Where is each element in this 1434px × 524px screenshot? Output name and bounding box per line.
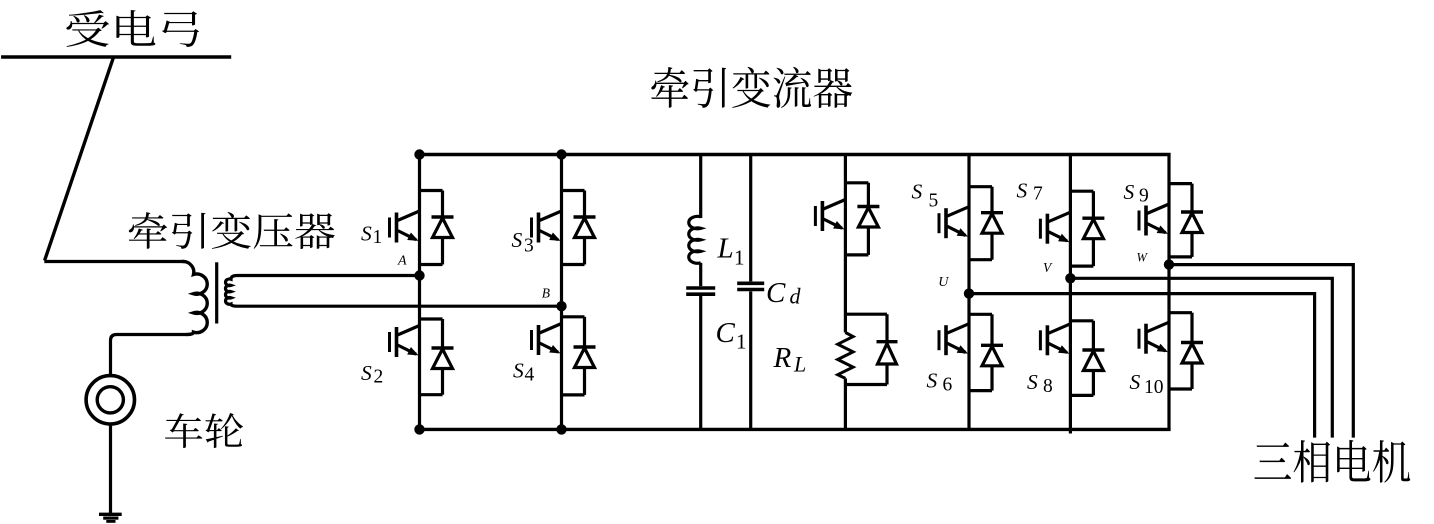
svg-text:3: 3: [524, 236, 534, 257]
wire inverter leg V rail: [1069, 155, 1072, 434]
svg-text:B: B: [542, 286, 550, 301]
antiparallel diode of S10: [1181, 313, 1203, 389]
wire collector stub S5: [969, 185, 992, 188]
svg-text:4: 4: [525, 365, 535, 386]
svg-text:R: R: [773, 342, 792, 374]
wire pantograph to transformer primary: [44, 260, 184, 263]
label 三相电机 (three-phase motor): [1254, 440, 1410, 483]
pantograph arm: [45, 58, 114, 261]
IGBT module S3: [532, 191, 596, 265]
junction dot node B: [556, 301, 566, 311]
IGBT module S7: [1040, 191, 1104, 266]
transformer core: [215, 262, 218, 323]
IGBT module S8: [1040, 321, 1104, 396]
wire Cd branch upper: [749, 155, 752, 282]
wire Cd branch lower: [749, 291, 752, 429]
svg-text:5: 5: [929, 191, 939, 212]
antiparallel diode of S7: [1082, 191, 1104, 266]
svg-text:2: 2: [374, 367, 384, 388]
wire secondary bottom to node B: [237, 305, 562, 308]
wire emitter stub S2: [420, 393, 443, 396]
wire collector stub S1: [420, 189, 443, 192]
svg-text:1: 1: [373, 227, 383, 248]
antiparallel diode of S5: [981, 187, 1003, 260]
antiparallel diode of S1: [432, 191, 454, 265]
IGBT transistor S3: [532, 211, 562, 243]
svg-text:1: 1: [736, 330, 747, 354]
wire rectifier leg 1 rail: [418, 155, 421, 430]
wire phase V output: [1070, 278, 1332, 437]
antiparallel diode of S8: [1082, 321, 1104, 396]
antiparallel diode of S4: [574, 317, 596, 395]
wire collector stub S7: [1070, 190, 1093, 193]
junction dot node W: [1164, 259, 1174, 269]
wheel (outer rim): [86, 376, 134, 424]
svg-text:S: S: [1130, 370, 1141, 394]
junction dot node U: [964, 288, 974, 298]
IGBT module S1: [390, 191, 454, 265]
svg-text:W: W: [1137, 251, 1149, 265]
svg-text:S: S: [1124, 180, 1135, 204]
DC bus positive (top rail): [420, 153, 1171, 156]
wire chopper leg lower: [844, 378, 847, 429]
wire emitter stub S7: [1070, 265, 1093, 268]
label 牵引变流器 (traction converter) title: [651, 67, 852, 108]
junction dot node V: [1065, 273, 1075, 283]
wire phase U output: [969, 294, 1315, 438]
svg-text:A: A: [397, 253, 407, 268]
svg-text:7: 7: [1033, 184, 1043, 205]
antiparallel diode of chopper: [857, 183, 879, 255]
wire inverter leg U rail: [967, 155, 970, 430]
wire emitter stub chopper IGBT: [845, 253, 868, 256]
wire RL top stub: [845, 313, 887, 316]
svg-text:C: C: [766, 277, 786, 309]
svg-text:C: C: [716, 317, 736, 349]
wire collector stub S3: [562, 189, 585, 192]
wire emitter stub S6: [969, 389, 992, 392]
wire collector stub chopper IGBT: [845, 181, 868, 184]
svg-text:S: S: [927, 368, 938, 392]
svg-text:S: S: [1017, 178, 1028, 202]
svg-text:S: S: [512, 228, 523, 252]
ground symbol: [99, 513, 122, 516]
wire emitter stub S5: [969, 258, 992, 261]
diode across RL: [885, 314, 888, 341]
junction dot node A: [414, 270, 424, 280]
label 受电弓 (pantograph): [66, 10, 199, 47]
resistor RL (zigzag): [838, 333, 853, 379]
svg-text:9: 9: [1139, 185, 1149, 206]
IGBT transistor S9: [1139, 204, 1169, 236]
wire transformer primary bottom to wheel: [111, 335, 188, 375]
svg-text:S: S: [1027, 370, 1038, 394]
antiparallel diode of S6: [981, 314, 1003, 390]
antiparallel diode of S9: [1181, 184, 1203, 257]
IGBT transistor chopper IGBT: [815, 200, 845, 232]
svg-text:10: 10: [1144, 377, 1164, 398]
junction dot leg2 top: [556, 149, 566, 159]
IGBT module S10: [1139, 313, 1203, 389]
wire L1C1 branch upper: [699, 155, 702, 219]
svg-text:8: 8: [1043, 376, 1053, 397]
wire chopper leg rail: [844, 155, 847, 333]
wire inverter leg W rail: [1167, 155, 1170, 430]
svg-text:L: L: [793, 352, 806, 377]
wire emitter stub S9: [1169, 255, 1192, 258]
wire collector stub S6: [969, 313, 992, 316]
junction dot leg2 bottom: [556, 424, 566, 434]
wire emitter stub S3: [562, 263, 585, 266]
wire emitter stub S8: [1070, 394, 1093, 397]
junction dot leg1 top: [414, 149, 424, 159]
IGBT transistor S4: [532, 324, 562, 356]
IGBT transistor S2: [390, 326, 420, 358]
IGBT module S2: [390, 319, 454, 395]
wire emitter stub S1: [420, 263, 443, 266]
transformer T secondary winding: [225, 276, 237, 307]
svg-text:S: S: [912, 180, 923, 204]
wheel (inner hub): [97, 387, 123, 413]
IGBT module chopper IGBT: [815, 183, 879, 255]
antiparallel diode of S2: [432, 319, 454, 395]
wire emitter stub S10: [1169, 387, 1192, 390]
wire rectifier leg 2 rail: [560, 155, 563, 430]
label 车轮 (wheel): [165, 413, 243, 448]
label 牵引变压器 (traction transformer): [129, 212, 335, 249]
IGBT module S6: [939, 314, 1003, 390]
IGBT transistor S10: [1139, 322, 1169, 354]
IGBT module S4: [532, 317, 596, 395]
pantograph contact line (catenary): [1, 55, 231, 58]
wire collector stub S9: [1169, 182, 1192, 185]
svg-text:S: S: [513, 359, 524, 383]
svg-text:S: S: [361, 222, 372, 246]
IGBT module S9: [1139, 184, 1203, 257]
IGBT module S5: [939, 187, 1003, 260]
IGBT transistor S5: [939, 207, 969, 239]
wire collector stub S10: [1169, 311, 1192, 314]
IGBT transistor S8: [1040, 324, 1070, 356]
IGBT transistor S1: [390, 211, 420, 243]
svg-text:1: 1: [734, 246, 745, 270]
wire L1C1 branch lower: [699, 263, 702, 286]
capacitor Cd: [737, 281, 764, 285]
transformer T primary winding: [182, 261, 207, 334]
wire emitter stub S4: [562, 393, 585, 396]
IGBT transistor S7: [1040, 212, 1070, 244]
svg-text:d: d: [790, 284, 802, 309]
wire wheel to ground: [109, 425, 112, 513]
IGBT transistor S6: [939, 324, 969, 356]
DC bus negative (bottom rail): [420, 428, 1171, 431]
svg-text:U: U: [938, 275, 949, 290]
capacitor C1: [686, 286, 715, 290]
wire phase W output: [1169, 265, 1353, 438]
wire collector stub S8: [1070, 319, 1093, 322]
wire RL bottom stub: [845, 383, 887, 386]
junction dot leg1 bottom: [414, 424, 424, 434]
inductor L1: [689, 216, 701, 263]
wire collector stub S4: [562, 315, 585, 318]
wire collector stub S2: [420, 317, 443, 320]
svg-text:S: S: [361, 361, 372, 385]
svg-text:L: L: [717, 233, 734, 265]
wire secondary top to node A: [237, 274, 420, 277]
antiparallel diode of S3: [574, 191, 596, 265]
svg-text:6: 6: [943, 375, 953, 396]
